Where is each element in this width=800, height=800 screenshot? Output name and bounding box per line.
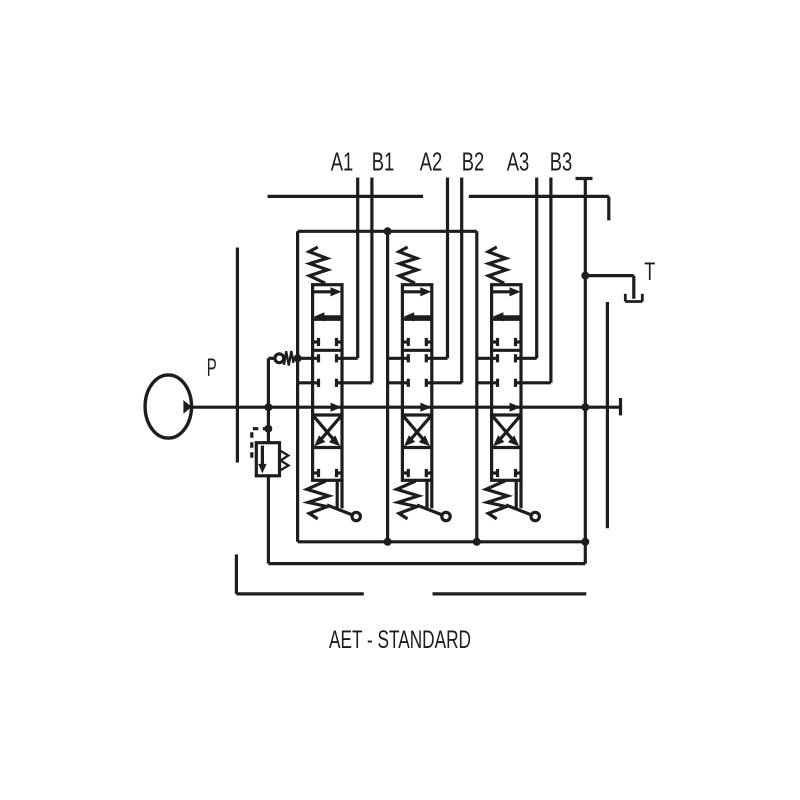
- tank riser line: [584, 179, 587, 542]
- relief valve inlet line: [267, 407, 270, 443]
- valve 2 port row 2 (P in / A out): [387, 354, 447, 362]
- tank line junction 1: [384, 538, 392, 546]
- valve 1 port row 3 (B out): [298, 379, 372, 387]
- svg-text:A1: A1: [331, 146, 354, 176]
- valve 1 return spring (bottom): [307, 481, 329, 519]
- valve 2 return spring (bottom): [397, 481, 419, 519]
- valve 2 spool stem: [427, 480, 432, 508]
- outer frame right segment: [606, 302, 609, 528]
- valve 1 port row 2 (P in / A out): [298, 354, 358, 362]
- outer frame top segments: [268, 195, 609, 198]
- pump circle: [145, 375, 191, 438]
- A2 label: [420, 146, 443, 176]
- valve 1 spring (top): [309, 247, 327, 283]
- tank symbol: [625, 294, 642, 302]
- relief valve flow arrow: [258, 446, 266, 474]
- relief valve body: [256, 443, 279, 476]
- tank riser top cap: [576, 177, 593, 180]
- relief pilot dashed line: [252, 429, 268, 461]
- P supply line: [191, 406, 621, 409]
- T label: [644, 258, 655, 286]
- valve 3 manual lever with knob: [506, 505, 539, 521]
- valve 2 position-1 arrow right: [403, 287, 431, 296]
- valve 3 position-1 arrow right: [493, 287, 521, 296]
- valve 1 P through arrowhead: [331, 403, 342, 412]
- valve 3 port row 2 (P in / A out): [477, 354, 537, 362]
- caption AET - STANDARD: [329, 626, 471, 654]
- outer frame left segment: [236, 248, 239, 463]
- valve 2 port row 3 (B out): [387, 379, 461, 387]
- P label: [207, 354, 217, 382]
- svg-text:B3: B3: [550, 146, 573, 176]
- valve 3 crossed position (X): [492, 415, 521, 446]
- tank line junction 2: [473, 538, 481, 546]
- svg-text:T: T: [644, 258, 655, 286]
- valve 1 position-1 arrow right: [314, 287, 342, 296]
- valve section 2 spool box: [402, 285, 431, 481]
- valve 3 A port line: [535, 178, 538, 359]
- valve 1 crossed position (X): [313, 415, 342, 446]
- svg-text:B2: B2: [462, 146, 485, 176]
- check valve spring: [284, 351, 298, 366]
- section 2 gallery line: [386, 231, 389, 542]
- bypass top line: [298, 230, 477, 233]
- valve 3 spool stem: [516, 480, 521, 508]
- tank return line: [298, 540, 586, 543]
- valve 1 B port line: [370, 178, 373, 383]
- junction pilot tap: [264, 425, 272, 433]
- valve 1 position-1 arrow left: [313, 312, 341, 321]
- valve 3 port row 3 (B out): [477, 379, 551, 387]
- valve 3 position-1 arrow left: [492, 312, 520, 321]
- svg-text:A3: A3: [507, 146, 530, 176]
- section 3 gallery line: [475, 231, 478, 542]
- valve 3 B port line: [549, 178, 552, 383]
- outer frame bottom-left bracket: [236, 554, 363, 594]
- junction check valve / gallery: [294, 354, 302, 362]
- valve 2 spring (top): [399, 247, 417, 283]
- outer frame top-right corner: [607, 196, 610, 220]
- A3 label: [507, 146, 530, 176]
- junction P / relief branch: [264, 403, 272, 411]
- valve 2 crossed position (X): [403, 415, 432, 446]
- valve section 1 spool box: [313, 285, 342, 481]
- valve 2 B port line: [460, 178, 463, 383]
- relief valve spring: [280, 451, 289, 471]
- B2 label: [462, 146, 485, 176]
- svg-text:B1: B1: [372, 146, 395, 176]
- valve 3 return spring (bottom): [486, 481, 508, 519]
- valve 1 spool stem: [337, 480, 342, 508]
- valve 1 blocked ports row 1: [313, 338, 342, 346]
- valve 1 blocked ports row 4: [313, 469, 342, 477]
- svg-text:P: P: [207, 354, 217, 382]
- valve 3 blocked ports row 1: [492, 338, 521, 346]
- svg-text:AET - STANDARD: AET - STANDARD: [329, 626, 471, 654]
- outer frame bottom-right segment: [433, 592, 587, 595]
- valve 3 spring (top): [488, 247, 506, 283]
- valve 2 manual lever with knob: [417, 505, 450, 521]
- check valve ball: [268, 354, 283, 363]
- junction riser/T-branch: [581, 272, 589, 280]
- valve section 3 spool box: [492, 285, 521, 481]
- B1 label: [372, 146, 395, 176]
- junction node bypass/section2: [384, 227, 392, 235]
- valve 2 A port line: [446, 178, 449, 359]
- check valve branch riser: [267, 358, 270, 407]
- valve 2 blocked ports row 4: [402, 469, 431, 477]
- pump outlet arrow: [183, 400, 191, 414]
- T branch line: [585, 276, 634, 299]
- valve 3 blocked ports row 4: [492, 469, 521, 477]
- svg-text:A2: A2: [420, 146, 443, 176]
- B3 label: [550, 146, 573, 176]
- valve 3 P through arrowhead: [510, 403, 521, 412]
- P line end tick: [619, 398, 622, 415]
- valve 1 manual lever with knob: [327, 505, 360, 521]
- valve 2 P through arrowhead: [420, 403, 431, 412]
- section 1 gallery line: [296, 231, 299, 542]
- valve 2 position-1 arrow left: [403, 312, 431, 321]
- tank line junction 3: [581, 538, 589, 546]
- relief return line: [268, 476, 585, 564]
- valve 2 blocked ports row 1: [402, 338, 431, 346]
- junction riser/P-line: [581, 403, 589, 411]
- valve 1 A port line: [356, 178, 359, 359]
- A1 label: [331, 146, 354, 176]
